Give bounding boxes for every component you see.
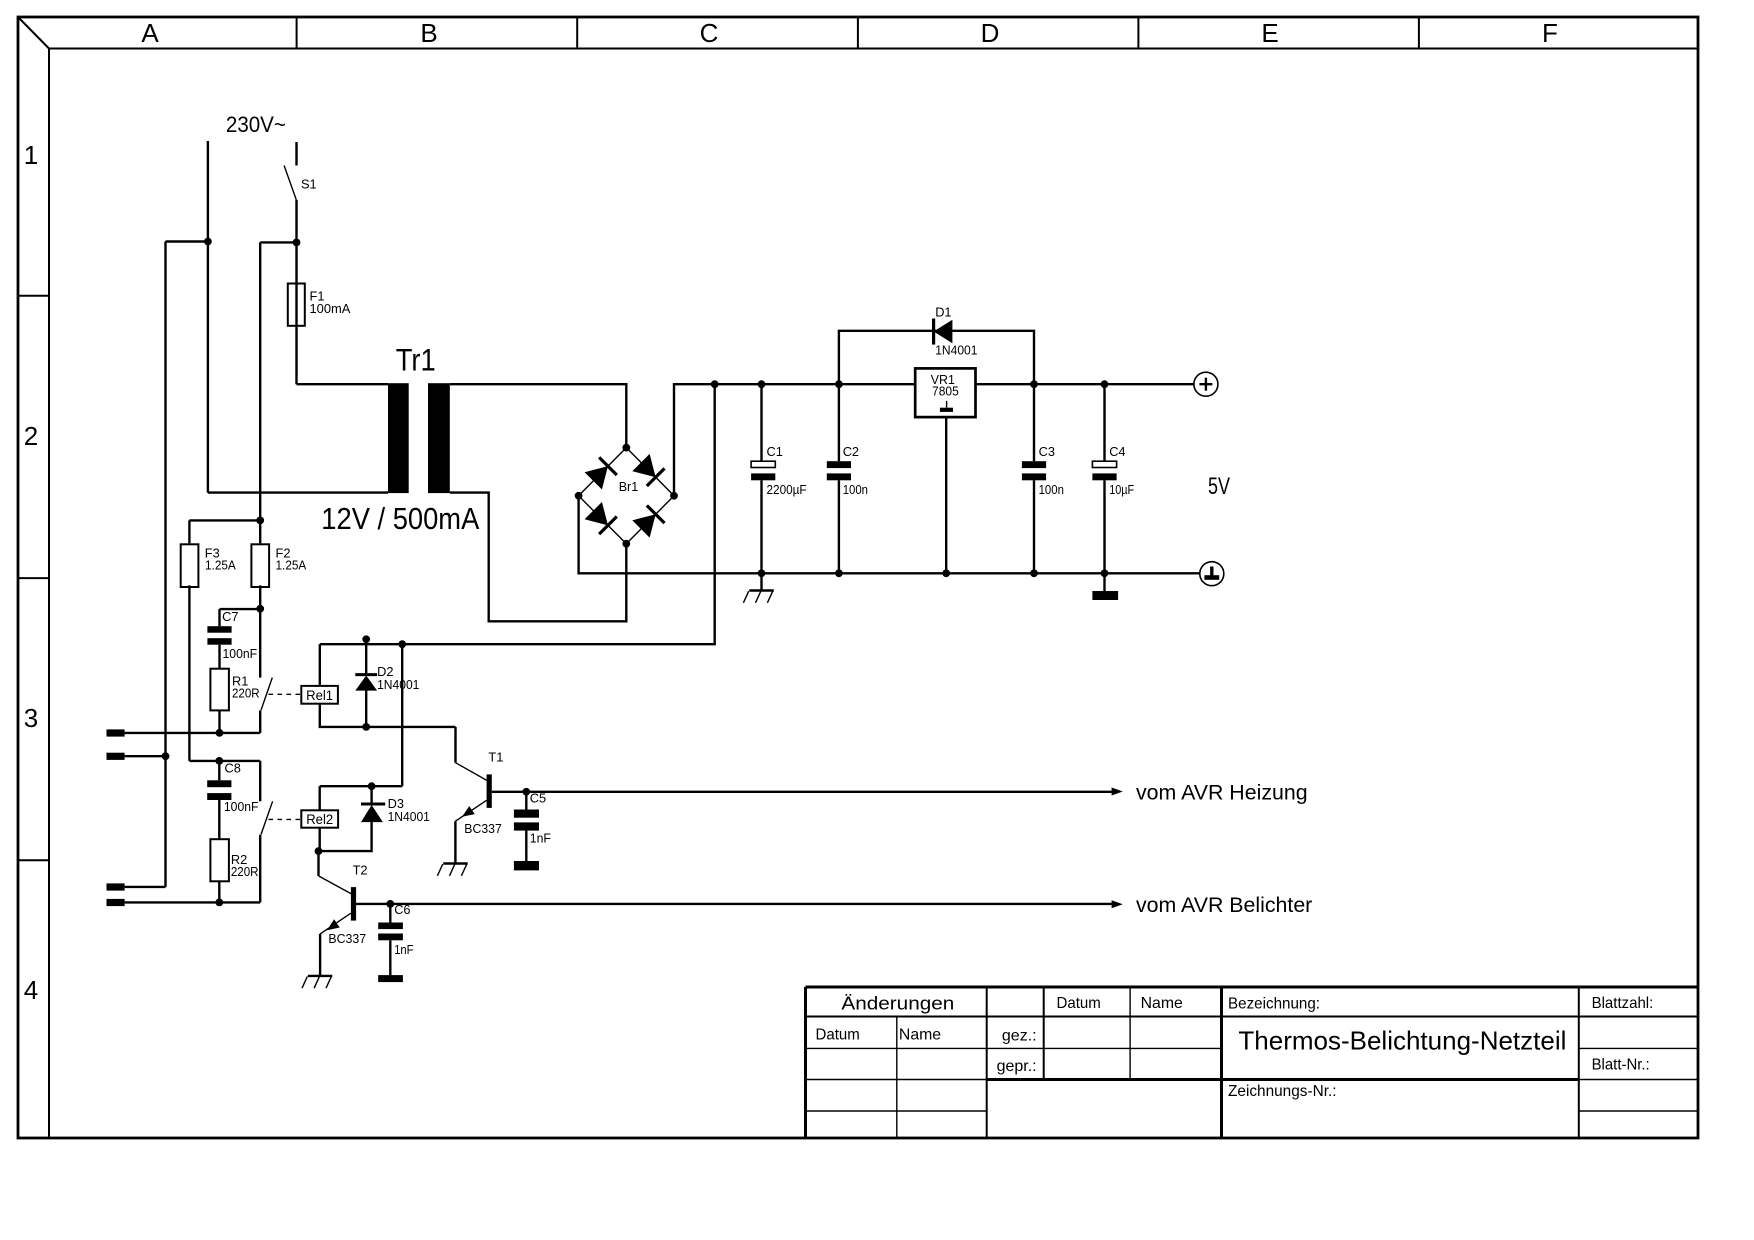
svg-text:100nF: 100nF [224,799,259,814]
svg-text:7805: 7805 [932,384,959,399]
capacitor C1 2200uF [751,380,807,577]
terminal bar 1 [107,729,125,736]
fuse F3 1.25A [181,517,264,761]
capacitor C8 100nF [207,757,258,839]
svg-text:A: A [141,18,159,48]
svg-text:12V / 500mA: 12V / 500mA [321,502,480,536]
relay contact Rel2 [260,761,301,903]
svg-text:vom AVR Belichter: vom AVR Belichter [1136,894,1312,917]
transformer Tr1 [321,342,480,537]
relay coil Rel1 [301,644,455,727]
svg-text:gepr.:: gepr.: [997,1058,1037,1075]
wire +12V feed down to relay rail [320,384,715,644]
svg-text:C8: C8 [225,761,241,776]
svg-text:C3: C3 [1039,444,1055,459]
relay contact Rel1 [260,678,301,733]
capacitor C6 1nF [378,900,413,982]
svg-text:D: D [981,18,1000,48]
svg-text:Bezeichnung:: Bezeichnung: [1228,995,1320,1012]
wire secondary top to bridge [450,384,627,447]
svg-text:2200µF: 2200µF [767,482,807,497]
switch S1 [284,142,317,242]
svg-text:C1: C1 [767,444,783,459]
ground below T1 [437,864,467,876]
capacitor C7 100nF [207,605,264,669]
svg-text:Datum: Datum [1057,995,1101,1012]
svg-text:1: 1 [24,140,38,170]
svg-text:Br1: Br1 [619,479,639,494]
svg-text:1.25A: 1.25A [205,558,236,573]
diode D2 1N4001 [355,635,419,730]
svg-text:BC337: BC337 [328,931,366,946]
svg-text:1.25A: 1.25A [276,558,307,573]
svg-text:C2: C2 [843,444,859,459]
svg-text:10µF: 10µF [1109,482,1134,497]
svg-text:gez.:: gez.: [1002,1027,1037,1044]
svg-text:BC337: BC337 [464,821,502,836]
arrow vom AVR Heizung [1112,788,1123,796]
svg-text:100n: 100n [1039,482,1064,497]
wire primary top to transformer [297,383,389,385]
svg-text:230V~: 230V~ [226,112,286,137]
wire bridge right vertex up to +raw rail [674,384,916,496]
svg-text:220R: 220R [232,686,260,701]
transistor T1 BC337 [455,727,526,864]
svg-text:Änderungen: Änderungen [841,994,954,1014]
wire rel2 top rail y=786.2 [320,785,403,787]
capacitor C4 10uF [1092,380,1134,577]
svg-text:Rel2: Rel2 [306,812,333,827]
capacitor C2 100n [827,380,868,577]
arrow vom AVR Belichter [1112,900,1123,908]
svg-text:Datum: Datum [816,1027,860,1044]
wire +5V rail right of VR1 [975,383,1194,385]
resistor R1 220R [210,669,259,737]
ground below T2 [302,976,332,988]
transistor T2 BC337 [319,851,391,976]
svg-text:2: 2 [24,421,38,451]
svg-text:D1: D1 [935,305,951,320]
svg-text:S1: S1 [301,177,317,192]
svg-text:Rel1: Rel1 [306,688,333,703]
wire primary bottom return [208,491,388,493]
capacitor C5 1nF [514,788,551,871]
svg-text:100mA: 100mA [310,301,351,316]
terminal bar 4 [107,899,261,906]
svg-text:Name: Name [1141,995,1183,1012]
svg-text:4: 4 [24,975,38,1005]
node rel2 coil bottom junction [315,847,323,855]
wire x=165.5 vertical rail [164,242,166,887]
svg-text:Zeichnungs-Nr.:: Zeichnungs-Nr.: [1228,1083,1337,1100]
svg-text:C7: C7 [222,609,238,624]
svg-text:F: F [1542,18,1558,48]
wire F3 output rail y=760.9 [189,760,260,762]
svg-text:1N4001: 1N4001 [388,809,430,824]
terminal ground output [1200,562,1224,586]
resistor R2 220R [210,839,258,906]
diode D3 1N4001 [319,782,430,851]
earth bar below C4 [1092,573,1118,600]
svg-text:T1: T1 [488,750,503,765]
fuse F1 100mA [288,242,351,384]
node dot x402 on relay rail [398,640,406,648]
TITLE BLOCK [806,987,1699,1137]
ground symbol below C1 [743,573,773,603]
svg-text:1N4001: 1N4001 [935,342,977,357]
wire junction stub left at y=241.5 [166,240,208,242]
svg-text:1N4001: 1N4001 [377,677,419,692]
svg-text:220R: 220R [231,864,259,879]
svg-text:Blattzahl:: Blattzahl: [1592,995,1654,1012]
svg-text:1nF: 1nF [530,830,551,845]
wire x=402 down feed [401,644,403,786]
wire junction stub left at y=242.4 [260,241,296,243]
bridge rectifier Br1 [575,444,678,548]
capacitor C3 100n [1022,380,1064,577]
svg-text:5V: 5V [1208,473,1230,500]
svg-text:T2: T2 [353,863,368,878]
wire terminal1 rail y=732.9 [125,732,261,734]
node feed dot on + rail [711,380,719,388]
node B junction dot [293,239,301,247]
relay coil Rel2 [301,786,338,851]
wire bridge left vertex down to 0V rail [579,496,1200,574]
svg-text:100nF: 100nF [223,646,258,661]
terminal bar 3 [107,883,166,890]
svg-text:Name: Name [899,1027,941,1044]
svg-text:B: B [420,18,437,48]
wire T1 base to AVR Heizung [526,791,1113,793]
svg-text:3: 3 [24,703,38,733]
svg-text:100n: 100n [843,482,868,497]
fuse F2 1.25A [251,520,306,677]
terminal + output [1194,372,1218,396]
svg-text:vom AVR Heizung: vom AVR Heizung [1136,781,1308,804]
regulator VR1 7805 [915,368,975,577]
svg-text:Thermos-Belichtung-Netzteil: Thermos-Belichtung-Netzteil [1238,1026,1566,1056]
svg-text:E: E [1261,18,1278,48]
diode D1 1N4001 bypass [839,305,1034,385]
wire secondary bottom loop to bridge bottom [450,493,627,622]
wire T2 base to AVR Belichter [390,903,1113,905]
wire x=260.2 vertical down to F2/F3 split [259,242,261,520]
svg-text:C4: C4 [1109,444,1125,459]
svg-text:Blatt-Nr.:: Blatt-Nr.: [1592,1057,1650,1074]
svg-text:1nF: 1nF [394,942,413,957]
node A junction dot [204,238,212,246]
terminal bar 2 [107,752,170,760]
svg-text:C: C [700,18,719,48]
wire 230V left phase down [207,141,209,493]
svg-text:Tr1: Tr1 [396,342,436,378]
